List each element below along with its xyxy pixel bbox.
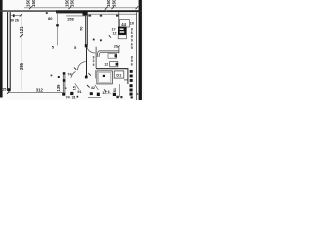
svg-text:9: 9: [93, 63, 95, 67]
svg-text:91: 91: [77, 90, 81, 94]
svg-text:42: 42: [91, 86, 95, 90]
svg-text:150: 150: [111, 0, 116, 7]
svg-text:15: 15: [72, 86, 76, 90]
svg-text:80: 80: [48, 16, 53, 21]
svg-text:139: 139: [56, 84, 61, 92]
svg-text:D1: D1: [116, 73, 121, 77]
svg-text:295: 295: [19, 62, 24, 70]
svg-text:312: 312: [36, 88, 44, 93]
svg-text:150: 150: [69, 0, 74, 7]
svg-text:158: 158: [67, 17, 74, 22]
svg-text:6: 6: [131, 63, 133, 67]
svg-text:150: 150: [31, 0, 36, 7]
svg-text:12: 12: [104, 62, 108, 66]
svg-text:26: 26: [15, 18, 19, 22]
svg-text:70: 70: [78, 26, 83, 31]
svg-text:81: 81: [113, 88, 117, 92]
svg-text:45: 45: [137, 92, 141, 96]
svg-text:9: 9: [131, 46, 133, 50]
svg-text:30: 30: [10, 18, 14, 22]
svg-text:12: 12: [113, 31, 117, 35]
svg-text:20: 20: [114, 44, 118, 48]
svg-text:15: 15: [2, 87, 6, 91]
svg-text:121: 121: [19, 26, 24, 34]
svg-text:10: 10: [130, 21, 134, 25]
svg-text:44: 44: [121, 22, 126, 27]
svg-text:31: 31: [72, 96, 76, 100]
